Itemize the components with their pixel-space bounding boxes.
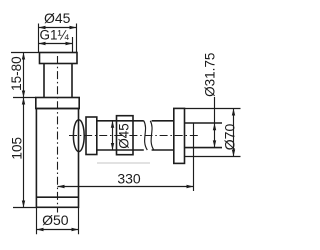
svg-text:Ø50: Ø50	[42, 212, 69, 228]
svg-text:Ø31.75: Ø31.75	[202, 53, 217, 97]
node extension line right end of 330	[193, 123, 195, 192]
node extension lines for diameter 45 top	[39, 24, 77, 53]
svg-text:G1¼: G1¼	[40, 28, 70, 43]
wire pipe break wavy line right	[150, 121, 154, 150]
wire pipe break wavy line left	[144, 121, 148, 150]
node dimension line G thread	[39, 43, 73, 45]
node dimension line diameter 45 top	[39, 27, 77, 29]
wire outlet nut 1	[86, 117, 97, 155]
wire trap body	[36, 109, 78, 208]
wire horizontal pipe bottom wall	[97, 149, 174, 151]
wire inlet neck right edge	[71, 64, 73, 98]
node dimension line diameter 31.75	[214, 97, 216, 147]
node extension line G thread right	[72, 37, 74, 52]
svg-text:105: 105	[10, 137, 25, 160]
node arrowheads 330	[58, 185, 194, 188]
node extension lines for diameter 70	[185, 109, 241, 157]
svg-text:330: 330	[117, 171, 141, 187]
node arrowheads 105	[22, 98, 25, 208]
node arrowheads diameter 45 pipe	[111, 121, 114, 150]
node arrowheads G thread	[39, 42, 73, 45]
node faint ghost line artifact	[97, 162, 150, 164]
svg-text:15-80: 15-80	[9, 56, 24, 91]
wire top cap nut of inlet	[40, 53, 78, 64]
wire wall tailpipe stub bottom	[185, 147, 223, 149]
wire bottom cup joint line	[36, 196, 78, 198]
wire outlet ball boss	[73, 120, 84, 152]
wire upper flange nut on body	[36, 98, 79, 109]
svg-text:Ø45: Ø45	[44, 10, 71, 26]
wire inlet neck left edge	[43, 64, 45, 98]
svg-text:Ø45: Ø45	[116, 123, 131, 149]
node horizontal centerline of pipe	[69, 135, 199, 137]
node dimension line 15-80 and 105	[23, 53, 25, 208]
node arrowheads 15-80	[22, 53, 25, 98]
node extension line at flange top for 15-80 and 105	[13, 97, 36, 99]
node extension line at body bottom for 105	[13, 207, 36, 209]
node extension lines for diameter 50	[37, 208, 79, 235]
wire compression nut 2 on pipe	[117, 116, 134, 155]
node dimension line diameter 50	[37, 229, 79, 231]
node arrowheads diameter 70	[232, 109, 235, 157]
node dimension line 330	[58, 186, 194, 188]
node arrowheads diameter 31.75	[213, 123, 216, 147]
node dimension line diameter 70	[233, 109, 235, 157]
wire wall tailpipe stub top	[185, 122, 223, 124]
node dimension line diameter 45 pipe	[112, 121, 114, 150]
node vertical centerline of body	[57, 56, 59, 213]
node arrowheads diameter 50	[37, 228, 79, 231]
svg-text:Ø70: Ø70	[222, 124, 238, 151]
wire wall flange	[174, 108, 185, 163]
node extension line top left for 15-80	[11, 52, 40, 54]
wire horizontal pipe top wall	[97, 120, 174, 122]
node arrowheads diameter 45 top	[39, 26, 77, 29]
